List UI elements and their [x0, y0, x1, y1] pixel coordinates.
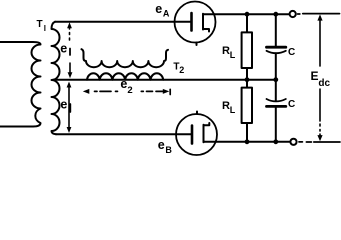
svg-text:2: 2: [179, 65, 184, 75]
svg-text:e: e: [158, 138, 165, 152]
tube A filament stub: [196, 43, 198, 46]
junction dots middle rail: [245, 77, 250, 82]
dashed lead after bottom terminal: [299, 141, 311, 143]
tube B cathode: [203, 125, 205, 143]
svg-text:L: L: [230, 50, 236, 60]
transformer T1 primary winding: [0, 42, 41, 127]
wire tube B cathode to output rail: [204, 141, 291, 143]
svg-text:L: L: [230, 105, 236, 115]
tube A (diode) envelope: [175, 2, 216, 43]
svg-text:l: l: [44, 24, 46, 33]
bottom reference line for Edc: [314, 141, 340, 143]
label e1 (lower): [60, 98, 67, 112]
svg-text:A: A: [163, 9, 170, 19]
svg-text:e: e: [60, 98, 67, 112]
capacitor C (upper): [275, 14, 277, 46]
junction dots top rail: [245, 12, 250, 17]
transformer T2 top winding: [82, 49, 169, 67]
output terminal (top): [290, 11, 296, 17]
output terminal (bottom): [290, 139, 296, 145]
resistor RL (upper): [246, 14, 248, 32]
top reference line for Edc: [303, 13, 340, 15]
svg-text:e: e: [155, 2, 162, 16]
svg-text:C: C: [288, 99, 295, 110]
resistor RL (lower): [246, 80, 248, 88]
svg-text:R: R: [222, 100, 230, 112]
label Edc: [311, 69, 331, 89]
wire tube A cathode to output rail: [203, 13, 289, 15]
transformer T1 secondary winding: [52, 22, 60, 135]
label eB: [158, 138, 173, 155]
Edc measurement arrow: [317, 14, 322, 20]
label eA: [155, 2, 170, 19]
transformer T2 bottom winding: [87, 73, 163, 79]
label e2: [120, 77, 132, 96]
label T1: [37, 19, 47, 33]
svg-text:B: B: [165, 145, 172, 155]
svg-text:C: C: [288, 47, 295, 58]
wire bottom rail from T1 secondary to tube B plate: [56, 133, 191, 135]
svg-text:e: e: [60, 42, 67, 56]
label e1 (upper): [60, 42, 67, 56]
svg-text:T: T: [37, 19, 43, 30]
tube B plate: [191, 126, 194, 144]
svg-text:R: R: [222, 45, 230, 57]
tube A plate: [190, 13, 193, 31]
svg-text:e: e: [120, 77, 127, 91]
wire top rail from T1 secondary to tube A plate: [55, 21, 191, 23]
junction dots bottom rail: [245, 139, 250, 144]
wire middle rail from T1 center tap through T2 to load junctions: [53, 79, 277, 81]
e1 upper measurement arrow: [69, 27, 72, 74]
svg-text:2: 2: [127, 85, 132, 96]
svg-text:E: E: [311, 69, 319, 83]
capacitor C (lower): [275, 80, 277, 101]
dashed lead after top terminal: [298, 13, 300, 15]
e1 lower measurement arrow: [68, 87, 70, 128]
e2 measurement arrow (dash-dot): [95, 89, 171, 94]
tube A cathode: [202, 14, 204, 30]
label T2: [173, 62, 184, 75]
svg-text:dc: dc: [318, 78, 330, 89]
tube B filament stub: [196, 112, 198, 115]
tube B (diode) envelope: [176, 114, 217, 155]
